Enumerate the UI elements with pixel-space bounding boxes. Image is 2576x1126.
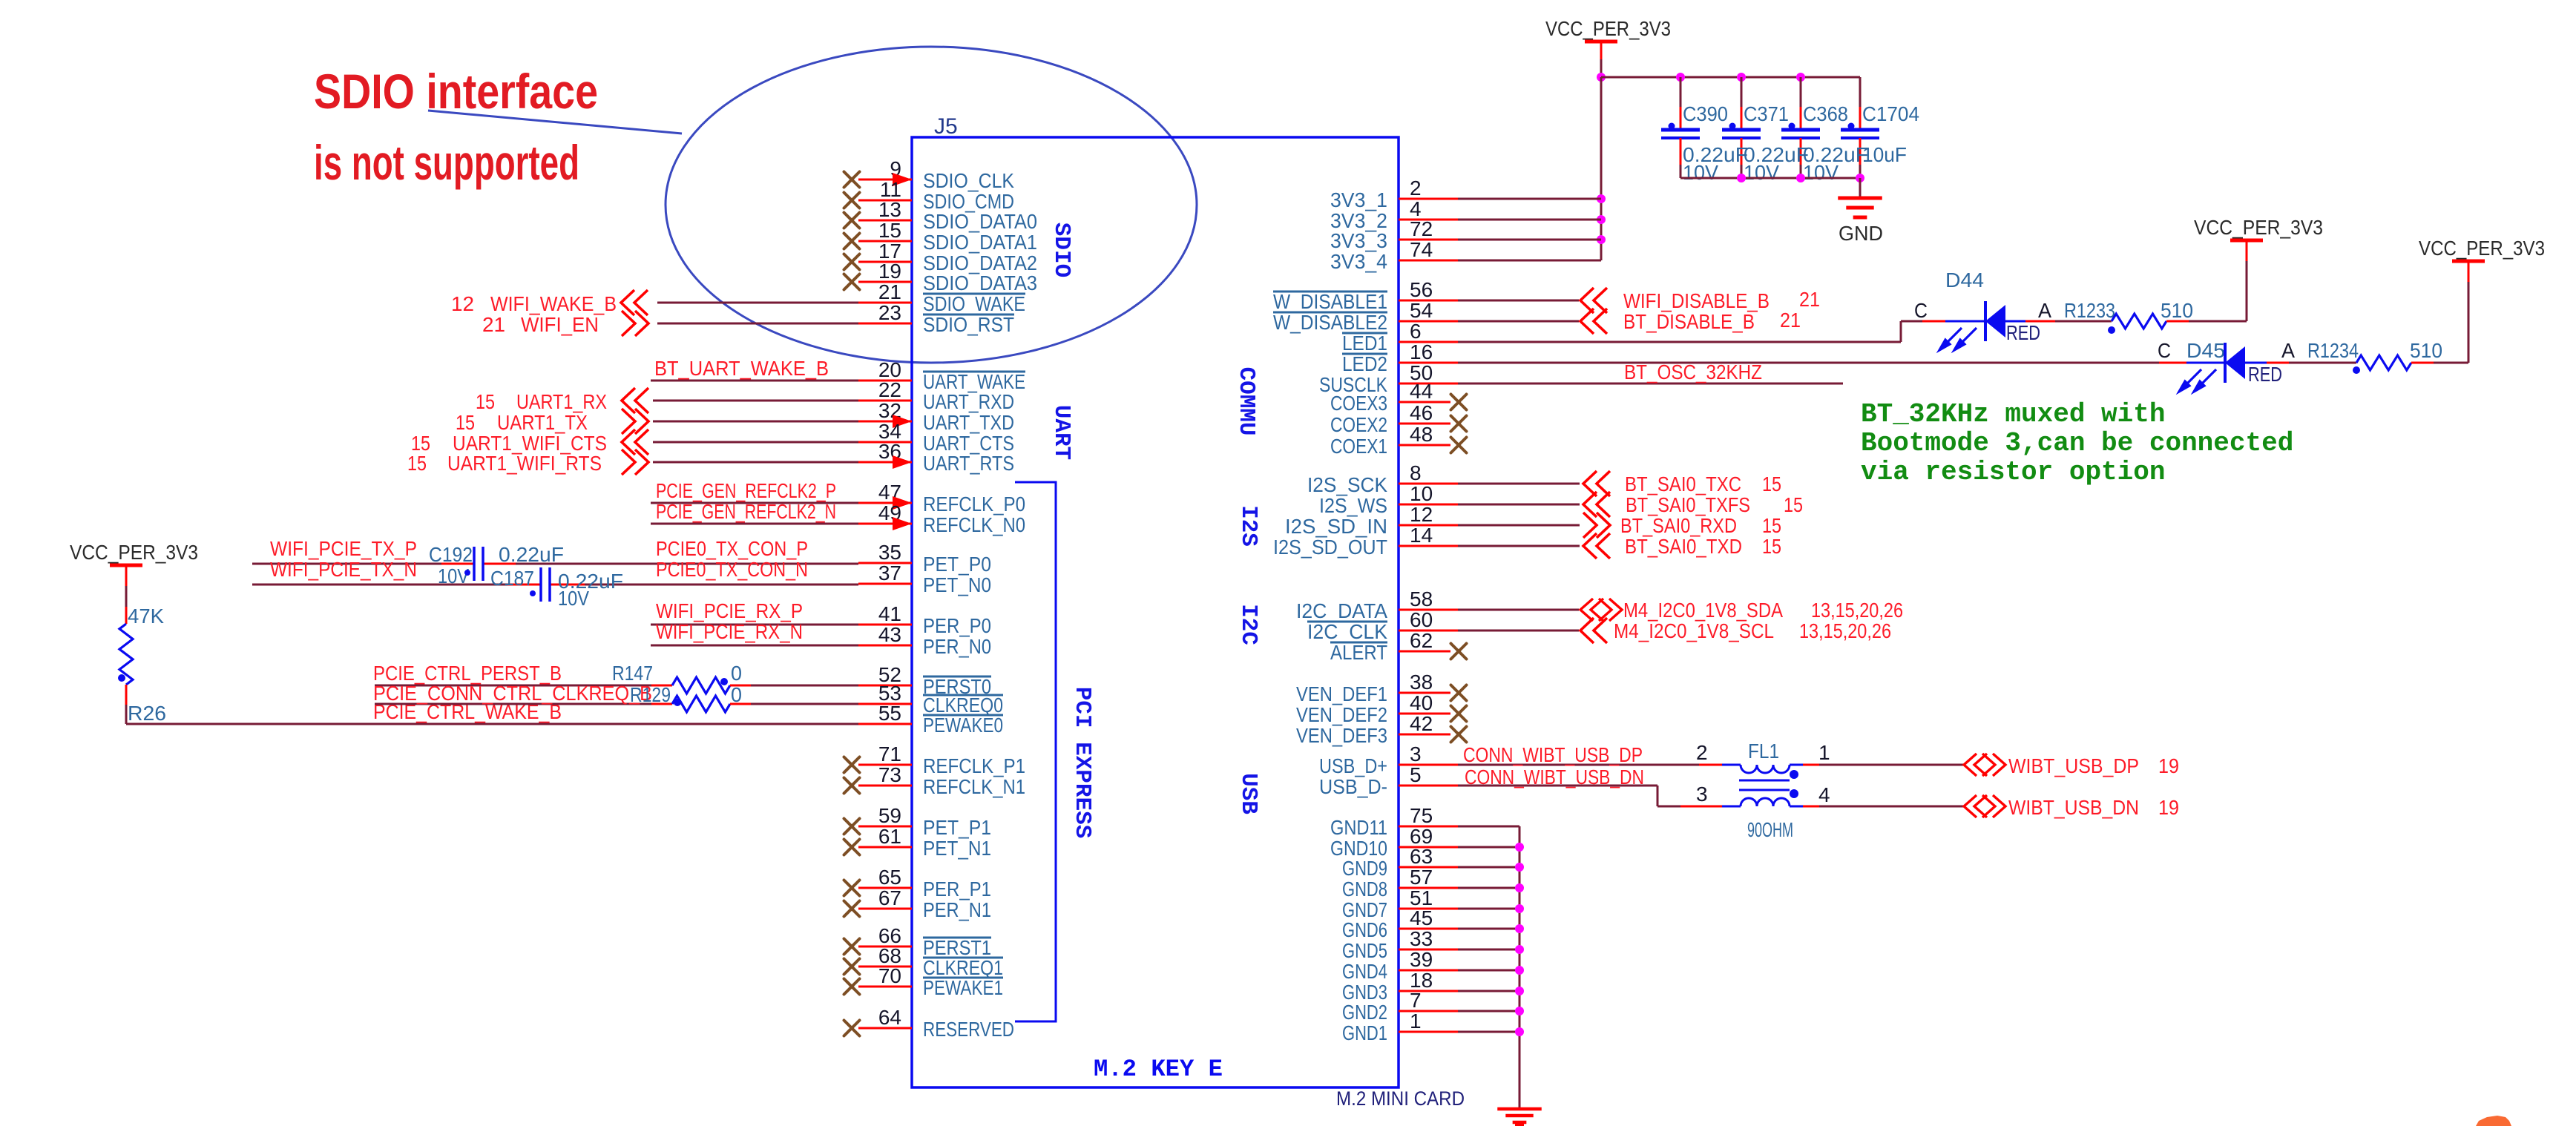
- svg-text:0: 0: [731, 662, 742, 685]
- pin 42 VEN_DEF3: [1399, 734, 1450, 736]
- svg-text:USB_D+: USB_D+: [1319, 754, 1387, 777]
- svg-text:42: 42: [1410, 712, 1433, 735]
- svg-text:VEN_DEF2: VEN_DEF2: [1296, 703, 1387, 726]
- svg-text:I2S_WS: I2S_WS: [1319, 494, 1387, 517]
- svg-text:90OHM: 90OHM: [1747, 818, 1793, 841]
- svg-text:COEX1: COEX1: [1330, 435, 1387, 458]
- net BT_OSC_32KHZ (pin 50): [1458, 383, 1843, 385]
- svg-text:COEX2: COEX2: [1330, 413, 1387, 436]
- svg-text:UART1_RX: UART1_RX: [516, 390, 607, 413]
- svg-text:SDIO_WAKE: SDIO_WAKE: [923, 292, 1025, 315]
- svg-text:WIFI_PCIE_RX_N: WIFI_PCIE_RX_N: [656, 620, 803, 643]
- svg-text:3V3_3: 3V3_3: [1330, 229, 1387, 252]
- svg-text:58: 58: [1410, 587, 1433, 610]
- svg-text:REFCLK_N1: REFCLK_N1: [923, 775, 1025, 798]
- svg-text:BT_SAI0_TXD: BT_SAI0_TXD: [1625, 535, 1742, 558]
- pin 61 PET_N1: [858, 846, 912, 849]
- net CONN_WIBT_USB_DN (pin 5): [1458, 785, 1657, 787]
- pin 32 UART_TXD: [858, 421, 912, 423]
- pin 69 GND10: [1399, 846, 1458, 849]
- net WIFI_DISABLE_B (pin 56): [1458, 300, 1579, 302]
- ground GND (caps): [1859, 178, 1862, 197]
- pin 17 SDIO_DATA2: [858, 261, 912, 263]
- svg-text:BT_DISABLE_B: BT_DISABLE_B: [1623, 310, 1755, 333]
- svg-text:3V3_1: 3V3_1: [1330, 188, 1387, 211]
- pin 74 3V3_4: [1399, 260, 1458, 262]
- svg-text:I2C_CLK: I2C_CLK: [1307, 620, 1387, 643]
- svg-text:UART_RXD: UART_RXD: [923, 390, 1014, 413]
- svg-text:RED: RED: [2006, 321, 2040, 344]
- svg-text:64: 64: [878, 1006, 901, 1029]
- svg-text:WIFI_EN: WIFI_EN: [521, 313, 599, 336]
- svg-text:19: 19: [878, 260, 901, 283]
- pin 72 3V3_3: [1399, 239, 1458, 241]
- svg-text:GND1: GND1: [1342, 1021, 1387, 1044]
- svg-text:PEWAKE0: PEWAKE0: [923, 714, 1003, 737]
- svg-text:I2S_SCK: I2S_SCK: [1307, 473, 1387, 496]
- pin 37 PET_N0: [858, 583, 912, 585]
- pin 13 SDIO_DATA0: [858, 220, 912, 222]
- pin 70 PEWAKE1: [858, 986, 912, 988]
- pin 55 PEWAKE0: [858, 723, 912, 725]
- pin 60 I2C_CLK: [1399, 630, 1458, 632]
- pin 53 CLKREQ0: [858, 703, 912, 705]
- svg-text:15: 15: [407, 452, 427, 475]
- net WIFI_PCIE_TX_P / PCIE0_TX_CON_P (pin 35): [252, 563, 441, 565]
- svg-text:7: 7: [1410, 989, 1422, 1012]
- power VCC_PER_3V3 (right): [2468, 282, 2470, 363]
- power VCC_PER_3V3 (mid): [2246, 261, 2248, 321]
- net WIBT_USB_DP: [1803, 764, 1819, 766]
- svg-text:WIFI_PCIE_TX_N: WIFI_PCIE_TX_N: [270, 558, 417, 581]
- pin 10 I2S_WS: [1399, 504, 1458, 506]
- svg-text:SDIO_DATA1: SDIO_DATA1: [923, 231, 1037, 254]
- resistor R1233 510: [2025, 320, 2055, 323]
- svg-text:SDIO_DATA3: SDIO_DATA3: [923, 271, 1037, 294]
- net WIFI_PCIE_TX_N / PCIE0_TX_CON_N (pin 37): [252, 584, 507, 586]
- svg-text:W_DISABLE2: W_DISABLE2: [1273, 311, 1387, 334]
- pin 50 SUSCLK: [1399, 383, 1458, 385]
- svg-text:CONN_WIBT_USB_DP: CONN_WIBT_USB_DP: [1463, 743, 1643, 766]
- net BT_UART_WAKE_B (pin 20): [651, 380, 858, 382]
- svg-text:VCC_PER_3V3: VCC_PER_3V3: [70, 541, 198, 564]
- svg-text:LED1: LED1: [1342, 332, 1387, 355]
- svg-text:44: 44: [1410, 380, 1433, 403]
- svg-text:via resistor option: via resistor option: [1861, 457, 2165, 487]
- svg-text:8: 8: [1410, 461, 1422, 484]
- pin 14 I2S_SD_OUT: [1399, 545, 1458, 547]
- svg-text:VCC_PER_3V3: VCC_PER_3V3: [2419, 237, 2545, 260]
- pin 11 SDIO_CMD: [858, 200, 912, 202]
- pin 16 LED2: [1399, 362, 1458, 364]
- svg-text:R26: R26: [128, 702, 166, 725]
- net UART1_WIFI_RTS (pin 36): [653, 461, 858, 464]
- svg-text:PER_P1: PER_P1: [923, 878, 991, 901]
- orange cursor fragment: [2476, 1116, 2511, 1126]
- resistor 47K: [119, 624, 133, 685]
- svg-text:I2S: I2S: [1235, 505, 1261, 547]
- pin 40 VEN_DEF2: [1399, 713, 1450, 715]
- svg-text:D44: D44: [1945, 269, 1984, 292]
- pin 49 REFCLK_N0: [858, 523, 912, 525]
- svg-text:C1704: C1704: [1862, 102, 1919, 125]
- svg-text:C368: C368: [1803, 102, 1848, 125]
- svg-text:63: 63: [1410, 845, 1433, 868]
- svg-text:VEN_DEF1: VEN_DEF1: [1296, 682, 1387, 705]
- svg-text:PCIE0_TX_CON_N: PCIE0_TX_CON_N: [656, 558, 808, 581]
- pin 48 COEX1: [1399, 444, 1450, 447]
- svg-text:0.22uF: 0.22uF: [499, 543, 564, 566]
- svg-text:J5: J5: [934, 114, 958, 139]
- svg-text:RESERVED: RESERVED: [923, 1018, 1014, 1041]
- pin 36 UART_RTS: [858, 461, 912, 464]
- ground GND (bus): [1497, 1109, 1542, 1122]
- svg-text:35: 35: [878, 541, 901, 564]
- svg-text:GND2: GND2: [1342, 1001, 1387, 1024]
- svg-text:2: 2: [1410, 177, 1422, 200]
- svg-text:21: 21: [482, 313, 505, 336]
- svg-text:PET_P1: PET_P1: [923, 816, 991, 839]
- pin 12 I2S_SD_IN: [1399, 524, 1458, 527]
- svg-text:C: C: [1914, 299, 1928, 322]
- svg-text:C: C: [2158, 339, 2171, 362]
- svg-text:GND11: GND11: [1330, 816, 1387, 839]
- svg-text:14: 14: [1410, 524, 1433, 547]
- svg-text:56: 56: [1410, 278, 1433, 301]
- svg-text:40: 40: [1410, 691, 1433, 714]
- wire 3V3 pin feed: [1458, 219, 1601, 221]
- svg-text:ALERT: ALERT: [1330, 641, 1387, 664]
- svg-text:48: 48: [1410, 423, 1433, 446]
- svg-text:W_DISABLE1: W_DISABLE1: [1273, 290, 1387, 313]
- pin 5 USB_D-: [1399, 785, 1458, 787]
- net PCIE_GEN_REFCLK2_N (pin 49): [651, 523, 858, 525]
- svg-text:WIFI_DISABLE_B: WIFI_DISABLE_B: [1623, 289, 1770, 312]
- svg-text:GND4: GND4: [1342, 960, 1387, 983]
- wire LED2 (pin 16): [1458, 362, 2159, 364]
- svg-text:10uF: 10uF: [1862, 143, 1907, 166]
- net BT_DISABLE_B (pin 54): [1458, 320, 1579, 323]
- svg-text:COMMU: COMMU: [1233, 366, 1259, 435]
- net PCIE_CONN_CTRL_CLKREQ_B / resistor R129 (pin 53): [375, 703, 651, 705]
- svg-text:UART1_TX: UART1_TX: [497, 411, 588, 434]
- net M4_I2C0_1V8_SDA (pin 58): [1458, 609, 1579, 611]
- svg-text:37: 37: [878, 562, 901, 585]
- svg-text:PCIE0_TX_CON_P: PCIE0_TX_CON_P: [656, 537, 808, 560]
- pin 45 GND6: [1399, 928, 1458, 930]
- svg-text:A: A: [2038, 299, 2051, 322]
- svg-text:I2S_SD_OUT: I2S_SD_OUT: [1273, 536, 1387, 559]
- svg-text:PCIE_GEN_REFCLK2_N: PCIE_GEN_REFCLK2_N: [656, 500, 836, 523]
- svg-text:10V: 10V: [558, 587, 589, 610]
- svg-text:SDIO_DATA0: SDIO_DATA0: [923, 210, 1037, 233]
- svg-text:54: 54: [1410, 299, 1433, 322]
- pin 39 GND4: [1399, 969, 1458, 972]
- wire GND bus: [1458, 826, 1519, 828]
- pin 67 PER_N1: [858, 908, 912, 910]
- svg-text:M4_I2C0_1V8_SCL: M4_I2C0_1V8_SCL: [1614, 619, 1774, 642]
- svg-text:PER_N0: PER_N0: [923, 635, 991, 658]
- svg-text:LED2: LED2: [1342, 352, 1387, 375]
- svg-text:19: 19: [2158, 796, 2179, 819]
- capacitor C371: [1741, 77, 1743, 107]
- svg-text:REFCLK_P0: REFCLK_P0: [923, 493, 1025, 516]
- svg-text:10: 10: [1410, 482, 1433, 505]
- pin 54 W_DISABLE2: [1399, 320, 1458, 323]
- pin 35 PET_P0: [858, 562, 912, 564]
- pin 20 UART_WAKE: [858, 380, 912, 382]
- svg-text:22: 22: [878, 378, 901, 401]
- svg-text:VCC_PER_3V3: VCC_PER_3V3: [1545, 17, 1671, 40]
- svg-text:510: 510: [2161, 299, 2193, 322]
- svg-text:5: 5: [1410, 763, 1422, 786]
- svg-text:R129: R129: [630, 683, 671, 706]
- net BT_SAI0_TXD: [1458, 545, 1580, 547]
- net PCIE_CTRL_WAKE_B (pin 55): [126, 723, 858, 725]
- svg-text:15: 15: [1762, 514, 1781, 537]
- wire 3V3 pin feed: [1458, 260, 1601, 262]
- svg-text:USB: USB: [1235, 773, 1261, 814]
- callout line: [428, 111, 682, 134]
- pin 68 CLKREQ1: [858, 966, 912, 968]
- net WIFI_EN (pin 23): [657, 323, 858, 325]
- svg-text:C192: C192: [429, 543, 473, 566]
- pin 34 UART_CTS: [858, 441, 912, 444]
- svg-text:15: 15: [1762, 535, 1781, 558]
- svg-text:PCI EXPRESS: PCI EXPRESS: [1069, 687, 1095, 839]
- svg-text:13,15,20,26: 13,15,20,26: [1811, 599, 1903, 622]
- pin 75 GND11: [1399, 826, 1458, 828]
- pin 7 GND2: [1399, 1010, 1458, 1013]
- svg-text:0: 0: [731, 683, 742, 706]
- svg-text:UART_TXD: UART_TXD: [923, 411, 1014, 434]
- svg-text:R1234: R1234: [2307, 339, 2359, 362]
- svg-text:UART_RTS: UART_RTS: [923, 452, 1014, 475]
- svg-text:13,15,20,26: 13,15,20,26: [1799, 619, 1891, 642]
- svg-text:15: 15: [476, 390, 495, 413]
- svg-text:15: 15: [1762, 473, 1781, 495]
- svg-text:GND6: GND6: [1342, 918, 1387, 941]
- svg-text:Bootmode 3,can be connected: Bootmode 3,can be connected: [1861, 428, 2293, 458]
- wire 3V3 bus: [1597, 73, 1606, 82]
- svg-text:PCIE_CONN_CTRL_CLKREQ_B: PCIE_CONN_CTRL_CLKREQ_B: [373, 682, 652, 705]
- svg-text:M.2 MINI CARD: M.2 MINI CARD: [1336, 1087, 1465, 1110]
- pin 9 SDIO_CLK: [858, 179, 912, 181]
- svg-text:PET_P0: PET_P0: [923, 553, 991, 576]
- svg-text:GND5: GND5: [1342, 939, 1387, 962]
- resistor R1234 510: [2267, 362, 2289, 364]
- pin 43 PER_N0: [858, 645, 912, 647]
- pin 56 W_DISABLE1: [1399, 300, 1458, 302]
- wire LED1 (pin 6): [1458, 341, 1901, 343]
- svg-text:M4_I2C0_1V8_SDA: M4_I2C0_1V8_SDA: [1623, 599, 1783, 622]
- net BT_SAI0_TXC: [1458, 483, 1580, 485]
- svg-text:WIBT_USB_DP: WIBT_USB_DP: [2008, 754, 2139, 777]
- svg-text:A: A: [2281, 339, 2295, 362]
- svg-text:SDIO: SDIO: [1048, 223, 1074, 277]
- svg-text:UART: UART: [1048, 405, 1074, 460]
- pin 4 3V3_2: [1399, 219, 1458, 221]
- svg-text:I2C_DATA: I2C_DATA: [1296, 599, 1387, 622]
- capacitor C1704: [1859, 77, 1862, 107]
- svg-text:33: 33: [1410, 927, 1433, 950]
- svg-text:39: 39: [1410, 948, 1433, 971]
- pin 66 PERST1: [858, 946, 912, 948]
- svg-text:2: 2: [1696, 741, 1708, 764]
- pin 73 REFCLK_N1: [858, 785, 912, 787]
- pin 62 ALERT: [1399, 651, 1450, 653]
- svg-text:C371: C371: [1744, 102, 1789, 125]
- svg-text:60: 60: [1410, 608, 1433, 631]
- wire 3V3 pin feed: [1458, 239, 1601, 241]
- net WIBT_USB_DN: [1803, 806, 1819, 808]
- pin 23 SDIO_RST: [858, 323, 912, 325]
- svg-text:WIFI_WAKE_B: WIFI_WAKE_B: [490, 292, 617, 315]
- svg-text:10V: 10V: [1683, 161, 1718, 184]
- svg-text:PER_P0: PER_P0: [923, 614, 991, 637]
- svg-text:59: 59: [878, 804, 901, 827]
- pin 8 I2S_SCK: [1399, 483, 1458, 485]
- svg-text:VEN_DEF3: VEN_DEF3: [1296, 724, 1387, 747]
- svg-text:SDIO_CLK: SDIO_CLK: [923, 169, 1014, 192]
- svg-text:USB_D-: USB_D-: [1319, 775, 1387, 798]
- pin 41 PER_P0: [858, 624, 912, 626]
- svg-text:16: 16: [1410, 340, 1433, 363]
- svg-text:4: 4: [1818, 783, 1830, 806]
- svg-text:C187: C187: [490, 567, 534, 590]
- svg-text:3V3_4: 3V3_4: [1330, 250, 1387, 273]
- svg-text:15: 15: [456, 411, 475, 434]
- capacitor C368: [1800, 77, 1802, 107]
- pin 33 GND5: [1399, 949, 1458, 951]
- pin 1 GND1: [1399, 1031, 1458, 1033]
- pin 65 PER_P1: [858, 887, 912, 889]
- svg-text:43: 43: [878, 623, 901, 646]
- svg-text:510: 510: [2410, 339, 2442, 362]
- svg-text:GND: GND: [1839, 222, 1883, 245]
- capacitor C192: [473, 547, 476, 581]
- svg-text:1: 1: [1410, 1010, 1422, 1033]
- svg-text:62: 62: [1410, 629, 1433, 652]
- svg-text:PCIE_GEN_REFCLK2_P: PCIE_GEN_REFCLK2_P: [656, 479, 836, 502]
- pin 64 RESERVED: [858, 1027, 912, 1030]
- svg-text:WIFI_PCIE_RX_P: WIFI_PCIE_RX_P: [656, 599, 803, 622]
- svg-text:REFCLK_P1: REFCLK_P1: [923, 754, 1025, 777]
- capacitor C187: [539, 567, 542, 602]
- svg-text:BT_SAI0_TXFS: BT_SAI0_TXFS: [1626, 493, 1750, 516]
- net UART1_TX (pin 32): [653, 421, 858, 423]
- svg-text:12: 12: [451, 292, 474, 315]
- svg-text:3: 3: [1696, 783, 1708, 806]
- svg-text:38: 38: [1410, 671, 1433, 694]
- svg-text:70: 70: [878, 964, 901, 987]
- pin 52 PERST0: [858, 685, 912, 687]
- svg-text:74: 74: [1410, 238, 1433, 261]
- svg-text:VCC_PER_3V3: VCC_PER_3V3: [2194, 216, 2323, 239]
- svg-text:BT_32KHz muxed with: BT_32KHz muxed with: [1861, 399, 2165, 429]
- svg-text:19: 19: [2158, 754, 2179, 777]
- svg-text:COEX3: COEX3: [1330, 392, 1387, 415]
- wire cap bottom bus: [1680, 177, 1860, 180]
- svg-text:I2C: I2C: [1235, 604, 1261, 645]
- net UART1_RX (pin 22): [653, 400, 858, 402]
- highlight ellipse around SDIO pins: [666, 47, 1197, 363]
- pin 22 UART_RXD: [858, 400, 912, 402]
- svg-text:SDIO_RST: SDIO_RST: [923, 313, 1014, 336]
- svg-text:57: 57: [1410, 866, 1433, 889]
- svg-text:GND9: GND9: [1342, 857, 1387, 880]
- svg-text:45: 45: [1410, 906, 1433, 929]
- svg-text:CONN_WIBT_USB_DN: CONN_WIBT_USB_DN: [1465, 766, 1644, 788]
- svg-text:R1233: R1233: [2064, 299, 2115, 322]
- svg-text:47K: 47K: [128, 605, 164, 628]
- pin 6 LED1: [1399, 341, 1458, 343]
- resistor R26 wire: [125, 685, 128, 705]
- svg-text:UART1_WIFI_RTS: UART1_WIFI_RTS: [447, 452, 602, 475]
- svg-text:is not supported: is not supported: [314, 135, 579, 190]
- svg-text:15: 15: [878, 219, 901, 242]
- pin 57 GND8: [1399, 887, 1458, 889]
- net PCIE_GEN_REFCLK2_P (pin 47): [651, 502, 858, 504]
- svg-text:RED: RED: [2248, 363, 2282, 386]
- pin 19 SDIO_DATA3: [858, 281, 912, 283]
- net WIFI_WAKE_B (pin 21): [657, 302, 858, 304]
- svg-text:3: 3: [1410, 743, 1422, 766]
- net CONN_WIBT_USB_DP (pin 3): [1458, 764, 1699, 766]
- pin 21 SDIO_WAKE: [858, 302, 912, 304]
- svg-text:23: 23: [878, 301, 901, 324]
- svg-text:15: 15: [1784, 493, 1803, 516]
- pin 59 PET_P1: [858, 826, 912, 828]
- net WIFI_PCIE_RX_N (pin 43): [651, 645, 858, 647]
- net BT_SAI0_TXFS: [1458, 504, 1580, 506]
- svg-text:71: 71: [878, 743, 901, 766]
- svg-text:BT_UART_WAKE_B: BT_UART_WAKE_B: [654, 357, 829, 380]
- pin 44 COEX3: [1399, 401, 1450, 404]
- svg-text:I2S_SD_IN: I2S_SD_IN: [1285, 515, 1387, 538]
- svg-text:10V: 10V: [1744, 161, 1779, 184]
- svg-text:PER_N1: PER_N1: [923, 898, 991, 921]
- svg-text:75: 75: [1410, 804, 1433, 827]
- svg-text:6: 6: [1410, 320, 1422, 343]
- svg-text:PEWAKE1: PEWAKE1: [923, 976, 1003, 999]
- svg-text:72: 72: [1410, 217, 1433, 240]
- net WIFI_PCIE_RX_P (pin 41): [651, 624, 858, 626]
- svg-text:73: 73: [878, 763, 901, 786]
- pin 15 SDIO_DATA1: [858, 240, 912, 243]
- pin 51 GND7: [1399, 908, 1458, 910]
- svg-text:46: 46: [1410, 401, 1433, 424]
- svg-text:BT_SAI0_TXC: BT_SAI0_TXC: [1625, 473, 1741, 495]
- svg-text:55: 55: [878, 702, 901, 725]
- svg-text:M.2 KEY E: M.2 KEY E: [1094, 1056, 1223, 1083]
- svg-text:BT_SAI0_RXD: BT_SAI0_RXD: [1620, 514, 1737, 537]
- connector J5 box: [912, 137, 1399, 1087]
- svg-text:10V: 10V: [1803, 161, 1839, 184]
- svg-text:21: 21: [878, 280, 901, 303]
- wire 3V3 pin feed: [1458, 198, 1601, 200]
- net UART1_WIFI_CTS (pin 34): [653, 441, 858, 444]
- pin 2 3V3_1: [1399, 198, 1458, 200]
- svg-text:1: 1: [1818, 741, 1830, 764]
- pin 71 REFCLK_P1: [858, 764, 912, 766]
- pin 58 I2C_DATA: [1399, 609, 1458, 611]
- pin 63 GND9: [1399, 866, 1458, 869]
- svg-text:65: 65: [878, 866, 901, 889]
- pin 3 USB_D+: [1399, 764, 1458, 766]
- svg-text:C390: C390: [1683, 102, 1728, 125]
- svg-text:67: 67: [878, 886, 901, 909]
